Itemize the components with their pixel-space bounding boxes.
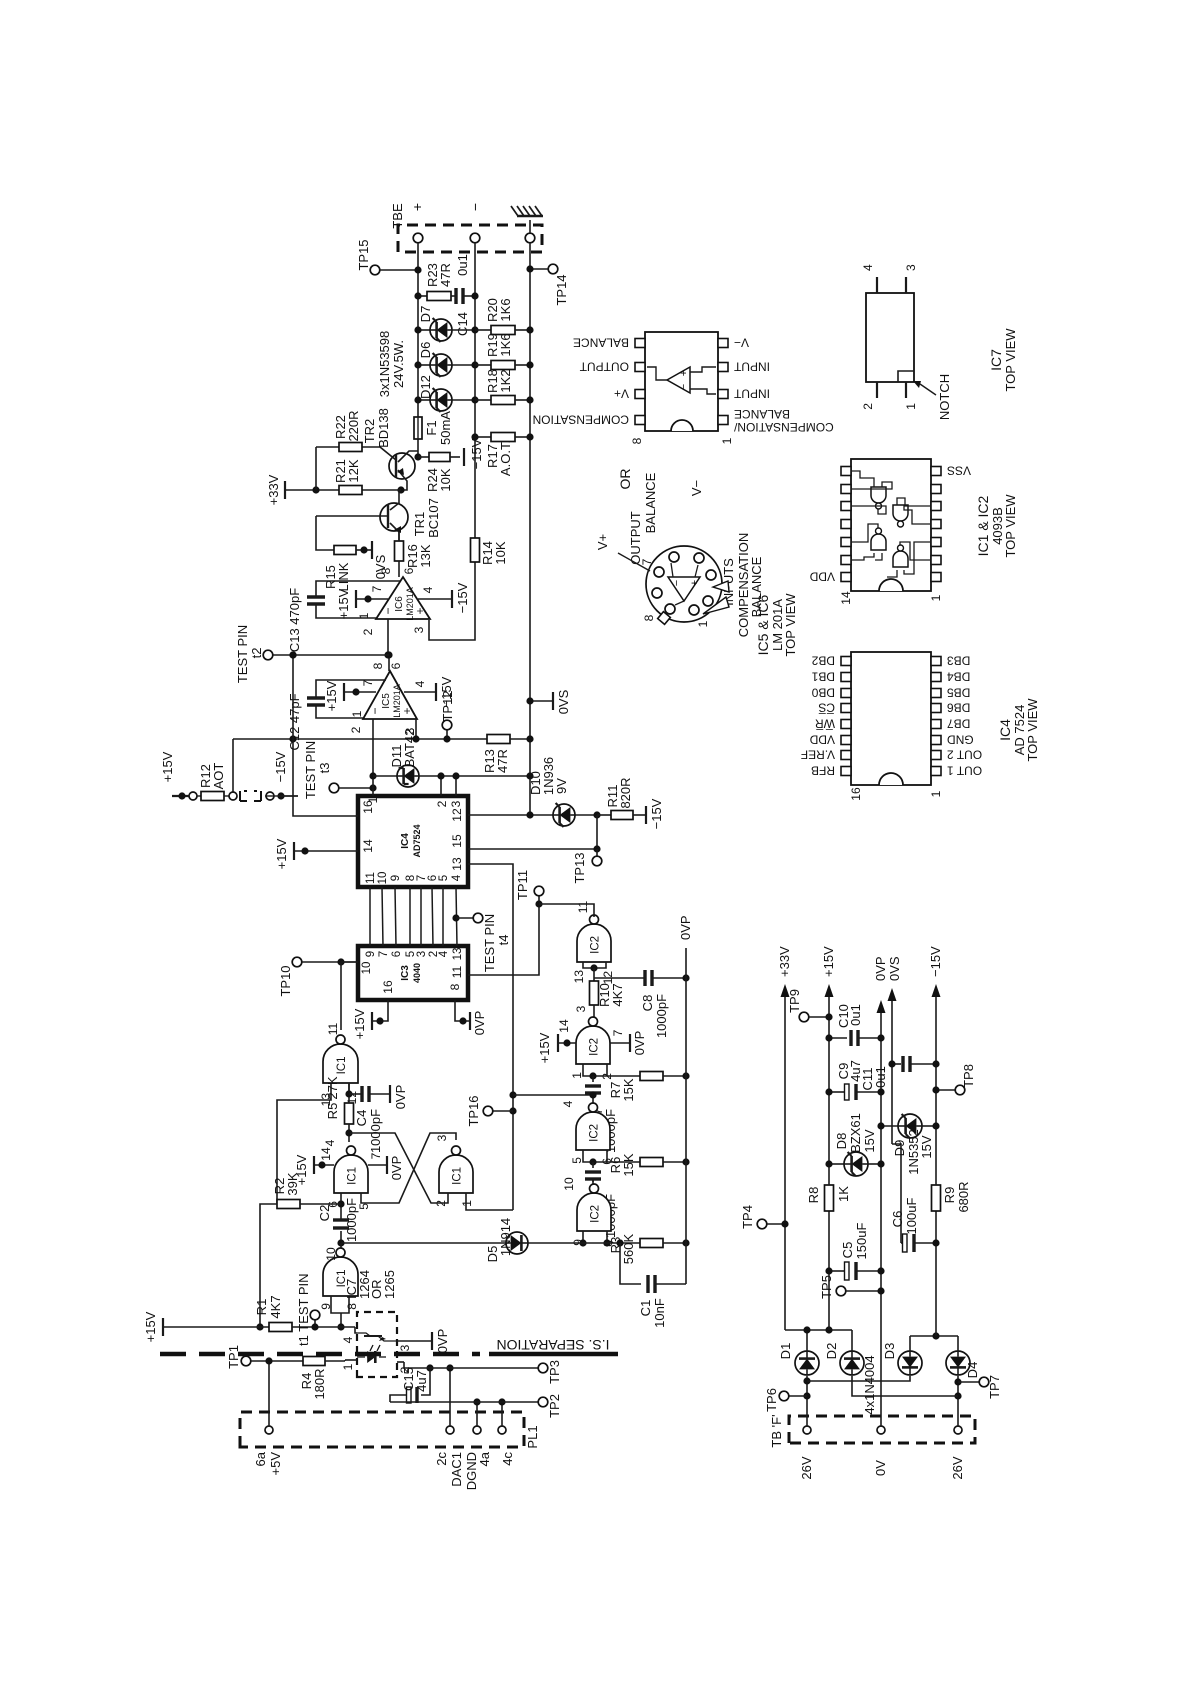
svg-text:0u1: 0u1 [455, 254, 470, 276]
diode D2 [840, 1351, 864, 1375]
svg-text:BAT42: BAT42 [402, 729, 417, 768]
capacitor C13 (470pF) [316, 604, 376, 618]
diode D6 (zener) [418, 364, 430, 366]
capacitor C15 (4u7) [426, 1364, 433, 1371]
svg-text:DB1: DB1 [811, 670, 835, 684]
IC7 pin 1 lead [905, 382, 907, 398]
svg-text:OR: OR [617, 469, 633, 490]
pinout diagram IC1 & IC2 DIP-14 package [851, 459, 931, 591]
svg-text:50mA: 50mA [438, 411, 453, 445]
NAND gate IC2c (pins 5,6,4) [576, 1112, 610, 1150]
svg-text:10K: 10K [438, 468, 453, 491]
svg-text:1: 1 [904, 403, 918, 410]
svg-text:OUT 2: OUT 2 [947, 748, 982, 762]
DIP8 bottom pin COMPENSATION/BALANCE [718, 416, 728, 425]
svg-text:2: 2 [861, 403, 875, 410]
DIP8 top pin V+ [635, 390, 645, 399]
resistor R15 (LINK) [316, 516, 334, 550]
svg-text:TEST PIN: TEST PIN [482, 914, 497, 972]
wire rail B (output - rail) [474, 243, 476, 538]
resistor R4 [303, 1357, 325, 1366]
svg-text:BD138: BD138 [376, 408, 391, 448]
IC2b 0VP stub pin 7 [610, 1042, 630, 1044]
svg-text:9: 9 [390, 875, 402, 881]
svg-text:COMPENSATION: COMPENSATION [533, 413, 629, 427]
wire leg A to D3 [807, 1376, 910, 1381]
IC4 AD7524 (DAC) [358, 796, 468, 887]
svg-text:DB7: DB7 [947, 717, 971, 731]
svg-text:A.O.T.: A.O.T. [498, 440, 513, 476]
svg-text:6: 6 [391, 951, 403, 957]
DIP8 internal op-amp [667, 367, 690, 393]
svg-text:220R: 220R [346, 410, 361, 441]
wire IC6 + input to R14 [429, 562, 475, 640]
svg-text:t1 TEST PIN: t1 TEST PIN [296, 1274, 311, 1347]
svg-text:7: 7 [611, 1029, 625, 1036]
test point TP2 [538, 1397, 548, 1407]
svg-text:t3: t3 [317, 763, 332, 774]
svg-text:+15V: +15V [324, 680, 339, 711]
svg-text:27K: 27K [325, 1076, 340, 1099]
DIP16 top pin RFB [841, 767, 851, 776]
svg-text:OUTPUT: OUTPUT [628, 511, 643, 565]
NAND gate IC2d (pins 9,8,10) [577, 1193, 611, 1231]
svg-text:−15V: −15V [469, 438, 484, 469]
svg-text:4: 4 [451, 874, 463, 881]
svg-text:R8: R8 [806, 1187, 821, 1204]
svg-text:DB0: DB0 [811, 686, 835, 700]
pinout diagram TO-99 can [646, 546, 722, 622]
wire R22 branch [315, 447, 317, 490]
svg-text:14: 14 [839, 591, 853, 605]
svg-text:1000pF: 1000pF [654, 994, 669, 1038]
svg-text:15K: 15K [621, 1153, 636, 1176]
capacitor C11 (0u1) [892, 1063, 901, 1065]
svg-text:9V: 9V [554, 778, 569, 794]
DIP8 top pin COMPENSATION [635, 416, 645, 425]
svg-text:4x1N4004: 4x1N4004 [862, 1355, 877, 1414]
svg-text:−15V: −15V [455, 582, 470, 613]
IC6 -15V stub pin 4 [418, 598, 452, 600]
svg-text:TP2: TP2 [547, 1394, 562, 1418]
svg-text:2: 2 [349, 726, 363, 733]
wire IC3 pin11 to TP11 node [468, 904, 539, 975]
svg-text:6: 6 [402, 567, 416, 574]
IC1b +15V stub pin 14 [314, 1164, 334, 1166]
wire IC2d inputs from D5 line [582, 1231, 584, 1243]
svg-text:V−: V− [734, 336, 749, 350]
cross-coupled latch wires [350, 1133, 448, 1203]
svg-text:+15V: +15V [821, 946, 836, 977]
IC3 4040 (counter) [358, 946, 468, 1000]
diode D3 [898, 1351, 922, 1375]
opto-coupler IC7 (dashed) [357, 1312, 397, 1377]
svg-text:8: 8 [642, 614, 656, 621]
svg-text:4u7: 4u7 [414, 1370, 429, 1392]
svg-text:2c: 2c [434, 1452, 449, 1466]
svg-text:16: 16 [381, 980, 395, 994]
wire IC4 pin2 [440, 776, 442, 796]
svg-text:1265: 1265 [382, 1270, 397, 1299]
DIP16 bottom pin DB3 [931, 657, 941, 666]
svg-text:IC2: IC2 [589, 1124, 601, 1142]
TO-99 pins [669, 552, 679, 562]
svg-text:IC1: IC1 [336, 1056, 348, 1074]
wire TP2 / DGND line [390, 1401, 538, 1403]
link jumper (dashed) [240, 791, 261, 801]
svg-text:AD7524: AD7524 [412, 824, 422, 857]
diode D5 (1N914) [506, 1232, 528, 1254]
wire +15V rail [828, 1211, 830, 1330]
IC6 +15V stub pin 7 [356, 598, 388, 600]
resistor R8 [825, 1185, 834, 1211]
svg-text:680R: 680R [956, 1181, 971, 1212]
svg-text:LINK: LINK [336, 562, 351, 591]
capacitor C9 (4u7) [829, 1091, 845, 1093]
svg-text:560K: 560K [621, 1233, 636, 1264]
IC7 pin 1 [345, 1359, 357, 1361]
test point TP7 [958, 1381, 979, 1383]
wire - node [909, 1336, 911, 1351]
svg-text:TP6: TP6 [764, 1388, 779, 1412]
op-amp IC6 (LM201A) [376, 577, 430, 619]
svg-text:1K6: 1K6 [498, 333, 513, 356]
svg-text:0u1: 0u1 [848, 1004, 863, 1026]
svg-text:D2: D2 [824, 1343, 839, 1360]
diode D4 [946, 1351, 970, 1375]
resistor R1 [269, 1323, 292, 1332]
svg-text:820R: 820R [618, 777, 633, 808]
resistor R24 [418, 456, 429, 458]
svg-text:C13 470pF: C13 470pF [287, 588, 302, 652]
svg-text:1N914: 1N914 [498, 1218, 513, 1256]
svg-text:1: 1 [929, 790, 943, 797]
svg-text:DB4: DB4 [947, 670, 971, 684]
svg-text:−15V: −15V [649, 798, 664, 829]
svg-text:7: 7 [640, 558, 654, 565]
svg-text:t4: t4 [496, 935, 511, 946]
svg-text:TOP VIEW: TOP VIEW [1003, 494, 1018, 558]
svg-text:C2: C2 [317, 1205, 332, 1222]
svg-text:1: 1 [696, 620, 710, 627]
wire IC5 + input [415, 719, 417, 739]
test point TP12 [446, 730, 448, 739]
svg-text:OUTPUT: OUTPUT [579, 360, 629, 374]
svg-text:11: 11 [326, 1022, 340, 1035]
svg-text:1K: 1K [836, 1186, 851, 1202]
svg-text:DAC1: DAC1 [449, 1452, 464, 1487]
svg-text:6: 6 [389, 662, 403, 669]
svg-text:1: 1 [366, 796, 380, 803]
DIP16 top pin DB0 [841, 689, 851, 698]
resistor R13 [487, 735, 510, 744]
svg-text:C̅S̅: C̅S̅ [818, 701, 835, 715]
svg-text:TOP VIEW: TOP VIEW [1025, 698, 1040, 762]
test point TP9 [799, 1012, 809, 1022]
DIP16 bottom pin DB7 [931, 720, 941, 729]
DIP14 internal gates [871, 487, 886, 503]
svg-text:11: 11 [576, 900, 590, 913]
resistor R22 [316, 446, 339, 448]
capacitor C14 [451, 295, 456, 297]
svg-text:0VP: 0VP [393, 1085, 408, 1110]
svg-text:VDD: VDD [809, 733, 835, 747]
NAND gate IC1a (pins 12,13,11) [323, 1044, 358, 1083]
svg-text:4: 4 [861, 264, 875, 271]
IC7 notch arrow [920, 384, 936, 395]
TO-99 internal op-amp [668, 577, 700, 601]
capacitor C6 (100uF) [901, 1242, 903, 1244]
PL1 pin 4a [473, 1426, 481, 1434]
svg-text:10: 10 [361, 962, 373, 975]
DIP16 bottom pin OUT 1 [931, 767, 941, 776]
wire IC1c pin1 to TP16 line [466, 1193, 513, 1210]
svg-text:BALANCE: BALANCE [573, 336, 629, 350]
resistor R6 [607, 1161, 640, 1163]
svg-text:−: − [381, 607, 395, 614]
svg-text:VSS: VSS [947, 464, 971, 478]
resistor R19 [475, 364, 491, 366]
test point TP10 [292, 957, 302, 967]
test point TP4 [757, 1219, 767, 1229]
svg-text:R5: R5 [325, 1103, 340, 1120]
svg-text:TP10: TP10 [278, 965, 293, 996]
wire C2 / pin6 node [340, 1231, 342, 1243]
svg-text:0VP: 0VP [472, 1011, 487, 1036]
wire +5V to TP1 [265, 1357, 272, 1364]
test point TP13 [596, 849, 598, 856]
0VS stub at R15 [356, 549, 372, 551]
svg-text:C8: C8 [640, 995, 655, 1012]
svg-text:9: 9 [365, 951, 377, 957]
svg-text:TR2: TR2 [362, 419, 377, 444]
svg-text:39K: 39K [285, 1172, 300, 1195]
test point TP11 [538, 896, 540, 904]
+33V supply terminal [284, 481, 286, 499]
DIP16 top pin DB2 [841, 657, 851, 666]
+15V terminal for R12 [172, 795, 192, 797]
svg-text:INPUT: INPUT [733, 360, 770, 374]
svg-text:150uF: 150uF [854, 1223, 869, 1260]
pinout diagram IC4 DIP-16 package [851, 652, 931, 785]
test point TP3 [538, 1363, 548, 1373]
svg-text:R1: R1 [254, 1299, 269, 1316]
test point TP8 [955, 1085, 965, 1095]
svg-text:D1: D1 [778, 1343, 793, 1360]
resistor R12 (AOT) with link [189, 792, 197, 800]
svg-text:14: 14 [361, 839, 375, 853]
wire D5 line (vertical) [341, 1242, 506, 1244]
wire to C7 node [509, 1091, 516, 1098]
svg-text:TOP VIEW: TOP VIEW [783, 593, 798, 657]
svg-text:10: 10 [324, 1247, 338, 1261]
diode D10 (1N936 9V zener) [553, 804, 575, 826]
svg-text:BZX61: BZX61 [848, 1113, 863, 1153]
svg-text:NOTCH: NOTCH [937, 374, 952, 420]
TBE pin 1 [413, 233, 423, 243]
svg-text:TP11: TP11 [515, 870, 530, 900]
DIP16 bottom pin DB4 [931, 673, 941, 682]
svg-text:DB2: DB2 [811, 654, 835, 668]
svg-text:−: − [467, 203, 483, 211]
svg-text:12K: 12K [346, 459, 361, 482]
svg-text:TEST PIN: TEST PIN [235, 625, 250, 683]
resistor R23 [418, 295, 427, 297]
wire -15V rail [935, 1211, 937, 1336]
capacitor C3 [592, 1162, 594, 1168]
svg-text:0VP: 0VP [873, 956, 888, 981]
svg-text:C14: C14 [455, 312, 470, 336]
svg-text:3: 3 [435, 1134, 449, 1141]
IC4 pin14 +15V stub [294, 850, 358, 852]
svg-text:4K7: 4K7 [610, 983, 625, 1006]
DIP8 top pin OUTPUT [635, 363, 645, 372]
svg-text:5: 5 [570, 1157, 584, 1164]
svg-text:IC1 & IC2: IC1 & IC2 [975, 495, 991, 556]
wire 0VP rail (divider) [685, 948, 687, 1284]
svg-text:TP1: TP1 [226, 1345, 241, 1369]
resistor R11 [597, 814, 611, 816]
svg-text:4: 4 [421, 586, 435, 593]
svg-text:15V: 15V [919, 1135, 934, 1158]
svg-text:D12: D12 [418, 375, 433, 399]
IC7 pin 3 to 0VP [397, 1340, 432, 1342]
TB pin 0V [877, 1426, 885, 1434]
svg-text:TP8: TP8 [961, 1064, 976, 1088]
pinout diagram IC5 & IC6 DIP-8 package [645, 332, 718, 431]
capacitor C8 [593, 968, 595, 978]
svg-text:TOP VIEW: TOP VIEW [1003, 328, 1018, 392]
svg-text:DB6: DB6 [947, 701, 971, 715]
wire leg A [806, 1376, 808, 1426]
svg-text:4: 4 [323, 1139, 337, 1146]
NAND gate IC1b (pins 5,6,4) [334, 1155, 368, 1193]
svg-text:180R: 180R [312, 1368, 327, 1399]
IC7 notch mark [898, 371, 914, 382]
wire IC6 inverting input [387, 619, 389, 655]
svg-text:1000pF: 1000pF [368, 1109, 383, 1153]
svg-text:4: 4 [413, 680, 427, 687]
svg-text:TP4: TP4 [740, 1205, 755, 1229]
svg-text:13K: 13K [418, 544, 433, 567]
wire + node [806, 1330, 808, 1351]
svg-text:IC1: IC1 [452, 1167, 464, 1185]
IC7 pin 2 [397, 1361, 404, 1363]
svg-text:TEST PIN: TEST PIN [303, 741, 318, 799]
wire 0VS rail (supply) [891, 996, 893, 1144]
resistor R14 [471, 538, 480, 562]
svg-text:11: 11 [450, 965, 464, 978]
wire leg B to D2 [852, 1376, 958, 1396]
svg-text:+33V: +33V [266, 474, 281, 505]
wire IC1d inputs tie [331, 1296, 349, 1313]
PL1 pin 2c DAC1 [446, 1426, 454, 1434]
TB pin 26V (bottom) [954, 1426, 962, 1434]
svg-text:+15V: +15V [352, 1008, 367, 1039]
DIP16 top pin C̅S̅ [841, 704, 851, 713]
wire +33V feed [285, 489, 401, 491]
svg-text:IC7: IC7 [988, 349, 1004, 371]
svg-text:OUT 1: OUT 1 [947, 764, 982, 778]
svg-text:+: + [678, 370, 690, 376]
svg-text:10nF: 10nF [652, 1298, 667, 1328]
svg-text:AOT: AOT [211, 763, 226, 790]
test point TP15 [370, 265, 380, 275]
wire IC4 pin1 / D11 / IC5 pin2 [372, 719, 374, 796]
test pin t2 [263, 650, 273, 660]
wire IC2b inputs tie / C7 node [583, 1064, 607, 1076]
transistor TR2 (BD138) [389, 453, 415, 479]
svg-text:2: 2 [435, 800, 449, 807]
test point TP14 [548, 264, 558, 274]
svg-text:3: 3 [416, 951, 428, 957]
svg-text:PL1: PL1 [525, 1425, 540, 1448]
wire TP16 / IC4 pin13 line [468, 864, 513, 1210]
IC1b 0VP stub pin 7 [368, 1164, 387, 1166]
IC7 internal phototransistor [364, 1335, 382, 1337]
diode D12 (zener) [418, 399, 430, 401]
capacitor C7 [592, 1076, 594, 1082]
svg-text:V.REF: V.REF [801, 748, 835, 762]
resistor R18 [475, 399, 491, 401]
test point TP5 [836, 1286, 846, 1296]
svg-text:3: 3 [574, 1005, 588, 1012]
svg-text:47R: 47R [495, 749, 510, 773]
test pin t1 [314, 1320, 316, 1327]
DIP8 bottom pin INPUT [718, 390, 728, 399]
svg-text:4K7: 4K7 [268, 1295, 283, 1318]
svg-text:1: 1 [720, 437, 734, 444]
wire IC1d output to D5 line [340, 1243, 342, 1248]
DIP8 top pin BALANCE [635, 339, 645, 348]
svg-text:0VP: 0VP [389, 1156, 404, 1181]
svg-text:0VP: 0VP [435, 1329, 450, 1354]
TBE pin 3 [525, 233, 535, 243]
svg-text:4040: 4040 [412, 963, 422, 983]
svg-text:16: 16 [849, 787, 863, 801]
svg-text:13: 13 [450, 857, 464, 871]
+15V rail (isolated side) [162, 1318, 164, 1336]
svg-text:−15V: −15V [273, 751, 288, 782]
wire TP1 / +5V line [241, 1356, 251, 1366]
IC7 pin 4 (from +15V) [355, 1327, 357, 1333]
DIP16 top pin W̅R̅ [841, 720, 851, 729]
svg-text:26V: 26V [799, 1456, 814, 1479]
svg-text:+15V: +15V [336, 588, 351, 619]
svg-text:D9: D9 [892, 1140, 907, 1157]
op-amp IC5 (LM201A) [363, 671, 417, 719]
svg-text:14: 14 [557, 1019, 571, 1033]
svg-text:TP13: TP13 [572, 852, 587, 883]
wire IC2c inputs tie / C3 node [583, 1150, 607, 1162]
svg-text:IC4: IC4 [400, 833, 411, 849]
DIP16 bottom pin GND [931, 736, 941, 745]
wire TP3 / DAC1 line [404, 1362, 538, 1368]
wire rail C (compensation rail) [529, 243, 531, 815]
capacitor C10 (0u1) [829, 1037, 847, 1039]
svg-text:3: 3 [904, 264, 918, 271]
svg-text:V+: V+ [614, 387, 629, 401]
svg-text:0V: 0V [873, 1460, 888, 1476]
svg-text:INPUT: INPUT [733, 387, 770, 401]
svg-text:BALANCE: BALANCE [643, 472, 658, 533]
capacitor C5 (150uF) [829, 1270, 845, 1272]
svg-text:13: 13 [452, 948, 464, 961]
svg-text:+15V: +15V [537, 1032, 552, 1063]
svg-text:0VP: 0VP [678, 915, 693, 940]
capacitor C12 (47pF) [316, 705, 363, 718]
svg-text:IC2: IC2 [590, 936, 602, 954]
